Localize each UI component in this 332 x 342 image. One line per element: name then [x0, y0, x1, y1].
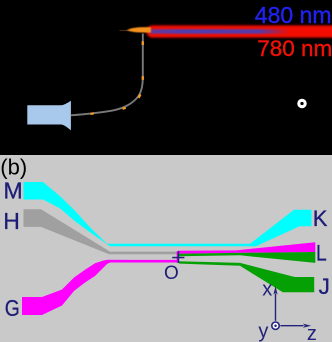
- z-axis arrowhead: [303, 324, 311, 328]
- svg-text:y: y: [258, 320, 268, 342]
- svg-text:O: O: [164, 263, 179, 284]
- waveguide L lower wedge (green): [179, 252, 315, 263]
- waveguide M-K (cyan): [24, 182, 312, 246]
- svg-text:480 nm: 480 nm: [255, 2, 332, 28]
- svg-text:L: L: [316, 241, 327, 266]
- fiber splice mark 5: [142, 41, 144, 45]
- z-axis line: [280, 325, 303, 327]
- waveguide G arm (magenta): [22, 260, 177, 315]
- waveguide H (gray): [24, 209, 179, 254]
- laser beam 780 nm (red): [147, 25, 332, 37]
- svg-text:x: x: [262, 278, 272, 300]
- fiber collimator (light blue body + flare): [27, 101, 71, 131]
- svg-text:G: G: [5, 295, 20, 321]
- fiber splice mark 2: [123, 108, 126, 109]
- fiber splice mark 1: [91, 112, 94, 115]
- fiber splice mark 4: [142, 76, 144, 80]
- waveguide L upper wedge (magenta): [178, 242, 315, 254]
- fiber splice mark 3: [139, 94, 141, 98]
- nanofiber taper thin waist (orange): [120, 29, 129, 31]
- optical fiber (gray curve): [71, 34, 143, 116]
- tapered nanofiber tip (orange): [127, 27, 151, 32]
- y-axis dot: [274, 324, 277, 327]
- x-axis line: [275, 294, 277, 321]
- waveguide J (green): [179, 261, 314, 292]
- top panel background (vacuum chamber, black): [0, 0, 332, 155]
- svg-text:J: J: [319, 274, 330, 299]
- svg-text:H: H: [3, 208, 20, 234]
- laser beam 480 nm core (blue/indigo stripe): [150, 29, 290, 34]
- svg-text:K: K: [313, 206, 328, 231]
- beam cross-section symbol (white ring): [299, 100, 305, 106]
- waveguide G-L vertical connector (magenta): [177, 251, 179, 263]
- svg-text:(b): (b): [0, 155, 27, 180]
- svg-text:M: M: [4, 178, 23, 204]
- bottom panel background (b), light gray: [0, 155, 332, 342]
- svg-text:z: z: [307, 323, 317, 342]
- x-axis arrowhead: [273, 286, 277, 294]
- svg-text:780 nm: 780 nm: [257, 36, 332, 61]
- origin cross marker: [172, 251, 184, 263]
- coordinate axes: y-axis out-of-plane circle: [272, 322, 279, 329]
